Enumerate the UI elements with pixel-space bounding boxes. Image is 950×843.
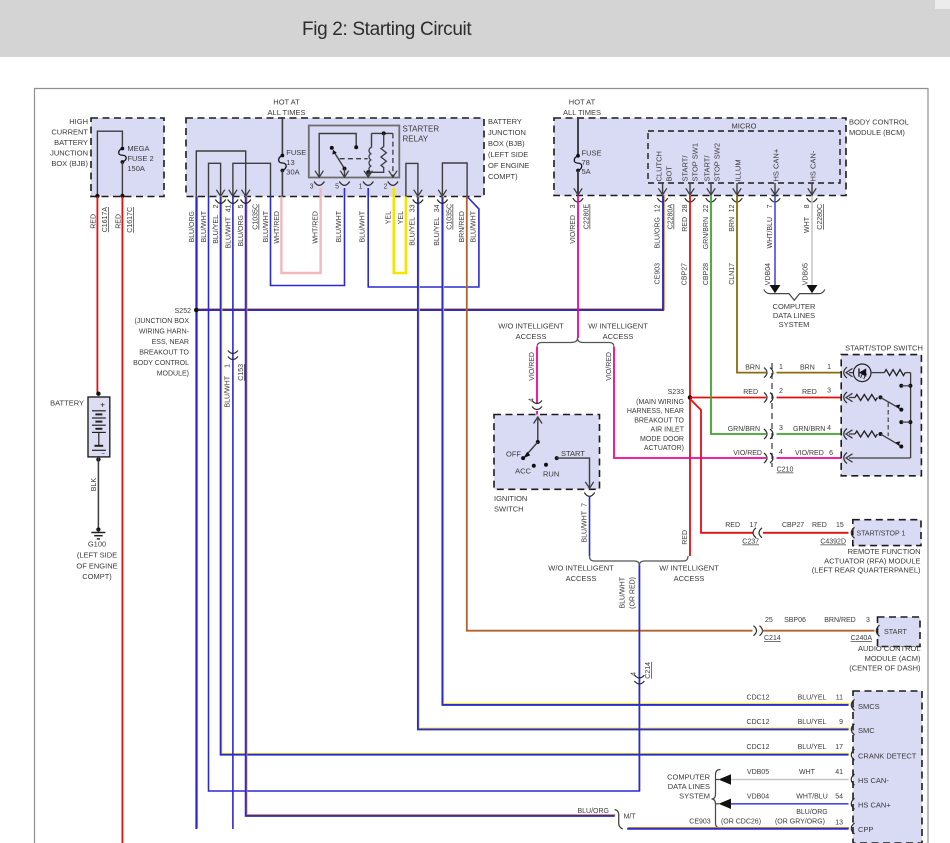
wire: VIO/RED w/ intelligent access branch to switch pin 6 <box>614 347 766 458</box>
svg-text:WHT/BLU: WHT/BLU <box>796 793 828 800</box>
svg-text:OF ENGINE: OF ENGINE <box>488 161 529 170</box>
svg-text:SMCS: SMCS <box>858 702 880 711</box>
svg-text:C2280C: C2280C <box>817 204 824 230</box>
ignition switch internals <box>534 417 542 424</box>
wire: relay pin 3 to fixed contact <box>319 134 356 178</box>
wire: relay blade to pin 5 <box>344 169 346 178</box>
connector C153 inline <box>228 351 238 354</box>
svg-text:C2280E: C2280E <box>584 204 591 230</box>
connector cup: VIO/RED pin 3 <box>573 198 583 202</box>
wire: BJB2 jumper BLU/ORG to pin 5 <box>196 151 245 197</box>
svg-text:BATTERY: BATTERY <box>488 117 522 126</box>
svg-text:G100: G100 <box>88 540 106 549</box>
svg-text:VDB05: VDB05 <box>803 263 810 285</box>
box: MICRO sub-module of BCM <box>648 131 840 183</box>
svg-text:BATTERY: BATTERY <box>50 399 84 408</box>
svg-text:GRN/BRN: GRN/BRN <box>728 426 760 433</box>
svg-text:BRN: BRN <box>729 217 736 232</box>
svg-text:C214: C214 <box>764 635 781 642</box>
svg-text:33: 33 <box>410 204 417 212</box>
svg-text:AIR INLET: AIR INLET <box>651 427 685 434</box>
svg-text:ACTUATOR (RFA) MODULE: ACTUATOR (RFA) MODULE <box>824 556 920 565</box>
svg-text:BLU/WHT: BLU/WHT <box>582 510 589 542</box>
connector C214 on BRN/RED wire <box>754 626 757 636</box>
wire: BLU/YEL 33 to SMC row <box>419 196 850 729</box>
wire: BJB2 jumper YEL to pin 33 <box>406 163 418 196</box>
wire: ignition start contact to exit <box>557 458 590 482</box>
svg-text:2: 2 <box>779 388 783 395</box>
svg-text:AUDIO CONTROL: AUDIO CONTROL <box>858 644 921 653</box>
svg-text:5: 5 <box>335 184 339 191</box>
svg-text:M/T: M/T <box>624 814 637 821</box>
svg-text:C153: C153 <box>238 364 245 381</box>
svg-text:C4392D: C4392D <box>820 539 846 546</box>
svg-text:ACCESS: ACCESS <box>516 332 547 341</box>
wire: WHT VDB05 HS CAN- row <box>731 779 849 781</box>
wire: BLU/WHT from BJB2 down to ignition feed corner <box>209 197 640 792</box>
svg-text:BRN: BRN <box>800 364 815 371</box>
relay switch blade with arrow <box>330 146 334 150</box>
svg-text:3: 3 <box>310 184 314 191</box>
wire: BRN CLN17 illum to switch pin 1 <box>737 195 766 372</box>
svg-text:3: 3 <box>779 425 783 432</box>
svg-text:SYSTEM: SYSTEM <box>779 320 810 329</box>
svg-text:ACCESS: ACCESS <box>674 574 705 583</box>
svg-text:(OR RED): (OR RED) <box>630 577 637 609</box>
svg-text:COMPT): COMPT) <box>82 572 112 581</box>
svg-text:OFF: OFF <box>506 450 521 459</box>
svg-text:VIO/RED: VIO/RED <box>733 450 762 457</box>
battery <box>96 392 100 396</box>
svg-text:GRN/BRN: GRN/BRN <box>703 217 710 249</box>
box: body control module (BCM) <box>554 118 846 196</box>
svg-text:WHT: WHT <box>804 216 811 233</box>
svg-text:78: 78 <box>582 158 590 167</box>
wire: switch row 1 internal to LED <box>849 372 854 374</box>
wire: BRN/RED to audio control module <box>467 197 753 631</box>
connector arc at RFA <box>851 527 854 538</box>
svg-text:BLU/WHT: BLU/WHT <box>226 216 233 248</box>
svg-text:MODE DOOR: MODE DOOR <box>640 436 684 443</box>
svg-text:4: 4 <box>779 449 783 456</box>
svg-text:5A: 5A <box>582 167 591 176</box>
junction S252 <box>194 308 199 313</box>
triangle: computer data lines (VDB05) <box>807 285 818 293</box>
svg-text:HIGH: HIGH <box>69 117 88 126</box>
svg-text:BREAKOUT TO: BREAKOUT TO <box>139 350 189 357</box>
svg-text:BRN: BRN <box>745 364 760 371</box>
brace under data line triangles <box>764 290 825 301</box>
wire: LED to resistor to rail <box>871 372 884 374</box>
box: start (audio control module) <box>878 617 921 647</box>
svg-text:13: 13 <box>835 819 843 826</box>
svg-text:7: 7 <box>767 204 774 208</box>
svg-text:54: 54 <box>835 793 843 800</box>
wire: BJB2 jumper pin 34 to BRN/RED point <box>442 163 467 197</box>
svg-text:JUNCTION: JUNCTION <box>488 128 526 137</box>
svg-text:SWITCH: SWITCH <box>494 505 524 514</box>
svg-text:22: 22 <box>703 204 710 212</box>
svg-text:BRN/RED: BRN/RED <box>824 617 856 624</box>
svg-text:SMC: SMC <box>858 726 875 735</box>
svg-text:BOX (BJB): BOX (BJB) <box>51 159 88 168</box>
wire: fuse 13 to box bottom (feeds WHT/RED) <box>281 171 283 197</box>
svg-text:CPP: CPP <box>858 825 873 834</box>
svg-text:C237: C237 <box>742 539 759 546</box>
relay resistor <box>372 133 387 172</box>
wire: BLU/ORG S252 branch to BCM clutch bot <box>197 195 664 310</box>
micro pin stubs with arrows <box>662 183 664 195</box>
svg-text:OF ENGINE: OF ENGINE <box>76 561 117 570</box>
ground G100 <box>96 527 100 531</box>
svg-text:RED: RED <box>802 389 817 396</box>
svg-text:SBP06: SBP06 <box>784 617 806 624</box>
wire: WHT/BLU VDB04 HS CAN+ row <box>731 803 849 805</box>
svg-text:CRANK DETECT: CRANK DETECT <box>858 752 917 761</box>
svg-text:VIO/RED: VIO/RED <box>570 215 577 244</box>
svg-text:SYSTEM: SYSTEM <box>679 792 710 801</box>
box: ignition switch <box>494 415 600 490</box>
wire: WHT/RED fuse13 U-loop to relay pin 3 <box>281 188 320 273</box>
svg-text:HOT AT: HOT AT <box>273 98 300 107</box>
svg-text:ACCESS: ACCESS <box>566 574 597 583</box>
svg-text:COMPUTER: COMPUTER <box>667 773 711 782</box>
svg-text:(MAIN WIRING: (MAIN WIRING <box>636 399 684 406</box>
svg-text:BODY CONTROL: BODY CONTROL <box>849 118 909 127</box>
svg-text:MODULE (BCM): MODULE (BCM) <box>849 128 905 137</box>
fuse 78 5A <box>576 154 580 158</box>
svg-text:ESS, NEAR: ESS, NEAR <box>152 339 189 346</box>
box: instrument module (SMCS/SMC/CRANK/CAN/CPP) <box>853 691 922 843</box>
box: high current battery junction box (BJB) <box>91 118 164 197</box>
svg-text:VIO/RED: VIO/RED <box>795 450 824 457</box>
wire: BRN/RED to START box <box>763 630 875 632</box>
title bar <box>0 0 950 57</box>
svg-text:RED: RED <box>725 522 740 529</box>
svg-text:13: 13 <box>286 158 294 167</box>
svg-text:1: 1 <box>827 364 831 371</box>
triangle: computer data lines (VDB04) <box>770 285 781 293</box>
wire: BLU/YEL 34 to SMCS row <box>443 196 849 704</box>
svg-text:GRN/BRN: GRN/BRN <box>793 426 825 433</box>
switch blade 1 <box>881 397 902 409</box>
svg-text:RELAY: RELAY <box>403 135 429 144</box>
svg-text:BLU/YEL: BLU/YEL <box>213 215 220 244</box>
svg-text:BLU/WHT: BLU/WHT <box>263 210 270 242</box>
svg-text:CBP27: CBP27 <box>682 263 689 285</box>
svg-text:3: 3 <box>827 388 831 395</box>
svg-text:CLN17: CLN17 <box>729 263 736 285</box>
svg-text:4: 4 <box>827 425 831 432</box>
svg-text:RED: RED <box>743 389 758 396</box>
svg-text:(LEFT REAR QUARTERPANEL): (LEFT REAR QUARTERPANEL) <box>812 566 921 575</box>
svg-text:Fig 2: Starting Circuit: Fig 2: Starting Circuit <box>302 19 472 40</box>
wire: VIO/RED from fuse 78 to intelligent-access brace <box>577 195 579 338</box>
svg-text:S233: S233 <box>668 389 684 396</box>
wire: WHT VDB05 to computer data lines <box>811 195 813 285</box>
svg-text:1: 1 <box>779 364 783 371</box>
svg-text:DATA LINES: DATA LINES <box>668 782 710 791</box>
svg-text:ACTUATOR): ACTUATOR) <box>644 445 684 452</box>
junction S233 <box>688 395 693 400</box>
svg-text:COMPT): COMPT) <box>488 172 518 181</box>
svg-text:BLU/YEL: BLU/YEL <box>410 217 417 246</box>
svg-text:2: 2 <box>384 184 388 191</box>
relay fixed contact dot <box>354 145 358 149</box>
svg-text:WHT/BLU: WHT/BLU <box>767 217 774 249</box>
wire: BJB2 jumper BLU/WHT to pin 2 <box>209 163 221 196</box>
svg-text:+: + <box>100 401 105 410</box>
svg-text:FUSE: FUSE <box>582 148 602 157</box>
svg-text:BRN/RED: BRN/RED <box>459 211 466 243</box>
svg-text:HS CAN-: HS CAN- <box>858 776 889 785</box>
svg-text:(CENTER OF DASH): (CENTER OF DASH) <box>849 664 921 673</box>
svg-text:W/O INTELLIGENT: W/O INTELLIGENT <box>548 564 614 573</box>
M/T break bracket <box>615 810 623 830</box>
connector C214 inline <box>634 675 644 678</box>
connector C210 column (dashed) <box>771 363 773 467</box>
svg-text:C1035C: C1035C <box>253 204 260 230</box>
brace: intelligent access split <box>537 338 614 347</box>
svg-text:(JUNCTION BOX: (JUNCTION BOX <box>135 318 190 325</box>
wire: BJB1 internal from C1617A up over to mega fuse <box>97 131 122 196</box>
svg-text:HARNESS, NEAR: HARNESS, NEAR <box>627 408 684 415</box>
switch row 2 resistor <box>849 397 855 399</box>
wire: RED CBP27 from BCM through S233 <box>689 195 691 556</box>
wire: switch row 4 to rail <box>849 457 911 459</box>
triangle: HS CAN- data line <box>716 779 719 781</box>
svg-text:BATTERY: BATTERY <box>54 138 88 147</box>
mega fuse 2 150A <box>121 147 125 151</box>
svg-text:BODY CONTROL: BODY CONTROL <box>133 360 189 367</box>
connector: ignition pin 4 <box>532 401 542 404</box>
wire: BLU/WHT U-loop to relay pin 5 <box>271 188 345 286</box>
svg-text:15: 15 <box>836 522 844 529</box>
relay coil top rail <box>372 132 393 134</box>
triangle: HS CAN+ data line <box>716 803 719 805</box>
svg-text:41: 41 <box>226 204 233 212</box>
svg-text:150A: 150A <box>127 164 145 173</box>
svg-text:12: 12 <box>729 204 736 212</box>
svg-text:BLU/ORG: BLU/ORG <box>577 808 609 815</box>
LED indicator <box>853 364 871 382</box>
svg-text:W/O INTELLIGENT: W/O INTELLIGENT <box>498 322 564 331</box>
svg-text:BLU/ORG: BLU/ORG <box>189 211 196 243</box>
svg-text:MODULE (ACM): MODULE (ACM) <box>865 654 921 663</box>
svg-text:BLU/WHT: BLU/WHT <box>336 210 343 242</box>
wire: fuse 78 to BCM bottom edge <box>577 171 579 195</box>
svg-text:BLU/WHT: BLU/WHT <box>360 210 367 242</box>
svg-text:HS CAN-: HS CAN- <box>809 150 818 181</box>
box: battery junction box (BJB) left side of engine compt <box>186 118 484 197</box>
relay coil <box>371 133 373 147</box>
wire: BLU/ORG from BJB2 to S252 and down <box>196 196 198 829</box>
svg-text:W/ INTELLIGENT: W/ INTELLIGENT <box>588 322 648 331</box>
svg-text:W/ INTELLIGENT: W/ INTELLIGENT <box>659 564 719 573</box>
svg-text:4: 4 <box>631 672 638 676</box>
wire: BLU/YEL pin 2 to crank detect row <box>221 196 849 754</box>
svg-text:9: 9 <box>839 719 843 726</box>
wire: RED C1617C to bottom <box>121 197 123 843</box>
svg-text:C210: C210 <box>777 467 794 474</box>
wire: BLU/WHT from ignition to merge brace <box>589 496 591 556</box>
svg-text:RED: RED <box>682 530 689 545</box>
svg-text:STOP SW1: STOP SW1 <box>691 143 700 182</box>
switch mechanical link (dashed) <box>887 403 889 437</box>
wire: RED S233 branch to C237 and RFA module <box>690 399 753 533</box>
svg-text:VIO/RED: VIO/RED <box>529 352 536 381</box>
svg-text:6: 6 <box>829 450 833 457</box>
wire: BLU/ORG CPP continuation <box>628 827 849 829</box>
svg-text:WHT/RED: WHT/RED <box>313 211 320 244</box>
svg-text:BLU/YEL: BLU/YEL <box>434 217 441 246</box>
svg-text:ILLUM: ILLUM <box>734 159 743 181</box>
connector: ignition exit pin 7 <box>584 493 594 497</box>
svg-text:CE903: CE903 <box>689 818 711 825</box>
svg-text:30A: 30A <box>286 167 299 176</box>
svg-text:CBP27: CBP27 <box>782 522 804 529</box>
svg-text:RED: RED <box>91 214 98 229</box>
svg-text:START/STOP SWITCH: START/STOP SWITCH <box>845 344 923 353</box>
svg-text:CE903: CE903 <box>655 263 662 285</box>
row connector arcs <box>851 699 854 710</box>
svg-text:YEL: YEL <box>398 211 405 224</box>
wire: BLU/WHT (OR RED) merged to C214 <box>638 566 640 792</box>
svg-text:BLU/YEL: BLU/YEL <box>798 744 827 751</box>
wire: BJB2 jumper pin 41 to relay pin 5 loop <box>233 163 271 196</box>
svg-text:(LEFT SIDE: (LEFT SIDE <box>488 150 528 159</box>
svg-text:S252: S252 <box>175 308 191 315</box>
wire: YEL U-loop relay pin 2 <box>394 188 406 273</box>
wire: BLU/ORG 5 to M/T note <box>246 196 615 815</box>
svg-text:BLU/WHT: BLU/WHT <box>471 210 478 242</box>
svg-text:BREAKOUT TO: BREAKOUT TO <box>634 417 684 424</box>
svg-text:CURRENT: CURRENT <box>51 128 88 137</box>
relay pin arrows 3 5 1 2 <box>315 171 323 178</box>
svg-text:START: START <box>884 627 908 636</box>
relay coil bottom junction to pin 1 <box>366 170 370 174</box>
svg-text:START/: START/ <box>681 155 690 182</box>
svg-text:CDC12: CDC12 <box>747 744 770 751</box>
svg-text:C1035C: C1035C <box>447 204 454 230</box>
svg-text:4: 4 <box>529 398 536 402</box>
svg-text:RED: RED <box>682 217 689 232</box>
svg-text:FUSE 2: FUSE 2 <box>127 154 153 163</box>
wire: relay rail to pin 2 (dashed) <box>392 133 394 177</box>
svg-text:25: 25 <box>765 617 773 624</box>
svg-text:CBP28: CBP28 <box>703 263 710 285</box>
svg-text:8: 8 <box>804 204 811 208</box>
wire: BLU/WHT 41 starter feed <box>232 197 234 830</box>
wire: BLK battery negative to ground <box>96 457 100 461</box>
switch row 3 resistor <box>849 433 855 435</box>
svg-text:WHT/RED: WHT/RED <box>274 211 281 244</box>
wire: GRN/BRN CBP28 to switch pin 4 <box>711 195 766 434</box>
svg-text:11: 11 <box>836 695 843 702</box>
svg-text:BOX (BJB): BOX (BJB) <box>488 139 525 148</box>
svg-text:17: 17 <box>835 744 843 751</box>
svg-text:JUNCTION: JUNCTION <box>50 149 88 158</box>
connector C237 <box>759 528 762 538</box>
svg-text:BLU/YEL: BLU/YEL <box>798 719 827 726</box>
switch fixed contacts pair 1 <box>899 384 903 388</box>
svg-text:HS CAN+: HS CAN+ <box>772 148 781 181</box>
wire: WHT/BLU VDB04 to computer data lines <box>774 195 776 285</box>
switch fixed contacts pair 2 <box>899 420 903 424</box>
brace: computer data lines system (bottom) <box>712 770 721 829</box>
svg-text:MODULE): MODULE) <box>157 371 189 378</box>
svg-text:WHT: WHT <box>799 769 816 776</box>
svg-text:VDB04: VDB04 <box>765 263 772 285</box>
svg-text:RED: RED <box>812 522 827 529</box>
wire: VIO/RED w/o intelligent access branch to ignition switch <box>536 347 538 403</box>
svg-text:VDB04: VDB04 <box>747 793 769 800</box>
wire: hot-at-all-times stub into BJB2 <box>281 117 283 156</box>
svg-text:17: 17 <box>750 522 758 529</box>
svg-text:VIO/RED: VIO/RED <box>606 352 613 381</box>
svg-text:BLU/WHT: BLU/WHT <box>201 210 208 242</box>
svg-text:CLUTCH: CLUTCH <box>655 151 664 181</box>
svg-text:BLU/ORG: BLU/ORG <box>238 215 245 247</box>
svg-text:DATA LINES: DATA LINES <box>773 311 815 320</box>
brace: intelligent access merge <box>590 556 689 566</box>
svg-text:C1617A: C1617A <box>102 207 109 233</box>
svg-text:1: 1 <box>359 184 363 191</box>
svg-text:C214: C214 <box>645 662 652 679</box>
svg-text:BLU/ORG: BLU/ORG <box>655 217 662 249</box>
svg-text:STARTER: STARTER <box>403 125 440 134</box>
svg-text:C1617C: C1617C <box>127 207 134 233</box>
box: start/stop 1 (RFA module) <box>853 520 921 546</box>
wire: RED battery feed C1617A <box>96 197 98 394</box>
switch row entry arcs and arrows <box>844 367 847 378</box>
relay mechanical link (dashed) <box>340 158 368 160</box>
svg-text:(OR GRY/ORG): (OR GRY/ORG) <box>775 818 825 825</box>
svg-text:BLU/YEL: BLU/YEL <box>798 695 827 702</box>
svg-text:(LEFT SIDE: (LEFT SIDE <box>77 551 117 560</box>
svg-text:YEL: YEL <box>386 211 393 224</box>
wire: mega fuse to box bottom <box>121 162 123 197</box>
switch blade 2 <box>881 434 902 446</box>
svg-text:COMPUTER: COMPUTER <box>773 302 817 311</box>
svg-text:ACCESS: ACCESS <box>603 332 634 341</box>
svg-text:3: 3 <box>570 204 577 208</box>
switch rail (right vertical) <box>910 373 912 458</box>
svg-text:STOP SW2: STOP SW2 <box>713 143 722 182</box>
svg-text:HS CAN+: HS CAN+ <box>858 801 891 810</box>
svg-text:CDC12: CDC12 <box>747 695 770 702</box>
svg-text:−: − <box>101 451 105 457</box>
svg-text:ALL TIMES: ALL TIMES <box>563 108 601 117</box>
svg-text:12: 12 <box>655 204 662 212</box>
svg-text:MICRO: MICRO <box>732 122 757 131</box>
svg-text:ALL TIMES: ALL TIMES <box>268 108 306 117</box>
svg-text:CDC12: CDC12 <box>747 719 770 726</box>
svg-text:RED: RED <box>116 214 123 229</box>
svg-text:34: 34 <box>434 204 441 212</box>
svg-text:START/: START/ <box>703 155 712 182</box>
relay K1 starter relay box <box>309 126 400 178</box>
fuse 13 30A <box>281 154 285 158</box>
svg-text:REMOTE FUNCTION: REMOTE FUNCTION <box>848 547 921 556</box>
svg-text:IGNITION: IGNITION <box>494 494 527 503</box>
svg-text:BLU/WHT: BLU/WHT <box>225 375 232 407</box>
box: start/stop switch <box>841 355 921 476</box>
svg-text:3: 3 <box>866 617 870 624</box>
svg-text:28: 28 <box>682 204 689 212</box>
svg-text:41: 41 <box>835 769 843 776</box>
svg-text:5: 5 <box>238 204 245 208</box>
